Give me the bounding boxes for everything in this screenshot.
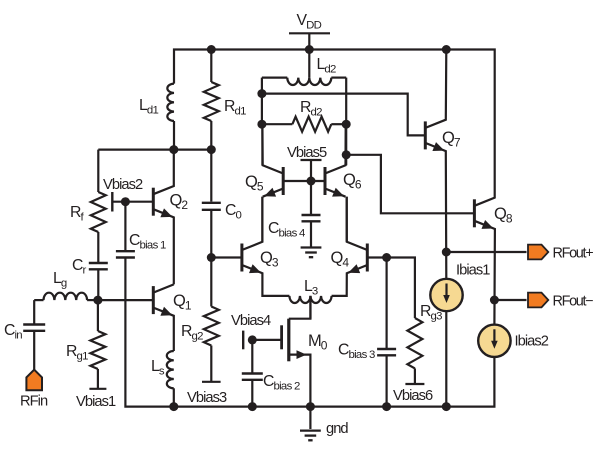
svg-text:Ls: Ls — [151, 358, 165, 378]
svg-text:Rg2: Rg2 — [181, 323, 203, 343]
svg-text:Rf: Rf — [70, 204, 84, 224]
svg-text:Cbias 3: Cbias 3 — [338, 342, 375, 362]
svg-text:RFout+: RFout+ — [553, 246, 594, 262]
svg-text:Ibias2: Ibias2 — [515, 334, 549, 350]
svg-text:gnd: gnd — [326, 421, 348, 437]
svg-text:RFin: RFin — [20, 394, 48, 410]
svg-text:Lg: Lg — [53, 270, 67, 290]
svg-text:Vbias4: Vbias4 — [231, 313, 271, 329]
svg-text:L3: L3 — [304, 278, 318, 298]
svg-text:Vbias5: Vbias5 — [287, 145, 327, 161]
svg-text:Q4: Q4 — [331, 249, 350, 270]
svg-text:Q5: Q5 — [245, 173, 264, 194]
svg-text:Ld1: Ld1 — [139, 97, 158, 117]
svg-text:Cin: Cin — [4, 322, 22, 342]
svg-text:Vbias1: Vbias1 — [76, 394, 116, 410]
svg-text:Q3: Q3 — [260, 249, 279, 270]
svg-text:Vbias2: Vbias2 — [103, 177, 143, 193]
svg-text:Rg1: Rg1 — [66, 343, 88, 363]
svg-text:M0: M0 — [308, 332, 328, 353]
svg-text:Cbias 2: Cbias 2 — [263, 373, 300, 393]
svg-text:Rd1: Rd1 — [224, 98, 246, 118]
svg-text:Cr: Cr — [72, 257, 86, 277]
svg-text:Q6: Q6 — [343, 171, 362, 192]
svg-text:C0: C0 — [225, 202, 241, 222]
svg-text:Q8: Q8 — [494, 205, 513, 226]
svg-text:Q1: Q1 — [173, 292, 192, 313]
svg-text:Cbias 1: Cbias 1 — [129, 232, 166, 252]
svg-text:VDD: VDD — [297, 12, 322, 32]
svg-text:Vbias6: Vbias6 — [393, 388, 433, 404]
svg-text:Cbias 4: Cbias 4 — [268, 220, 305, 240]
svg-text:Rd2: Rd2 — [300, 99, 322, 119]
svg-text:Q2: Q2 — [170, 192, 189, 213]
svg-text:Vbias3: Vbias3 — [187, 390, 227, 406]
svg-text:RFout−: RFout− — [553, 294, 594, 310]
svg-text:Q7: Q7 — [442, 129, 461, 150]
svg-text:Ibias1: Ibias1 — [456, 263, 490, 279]
svg-text:Ld2: Ld2 — [317, 56, 336, 76]
